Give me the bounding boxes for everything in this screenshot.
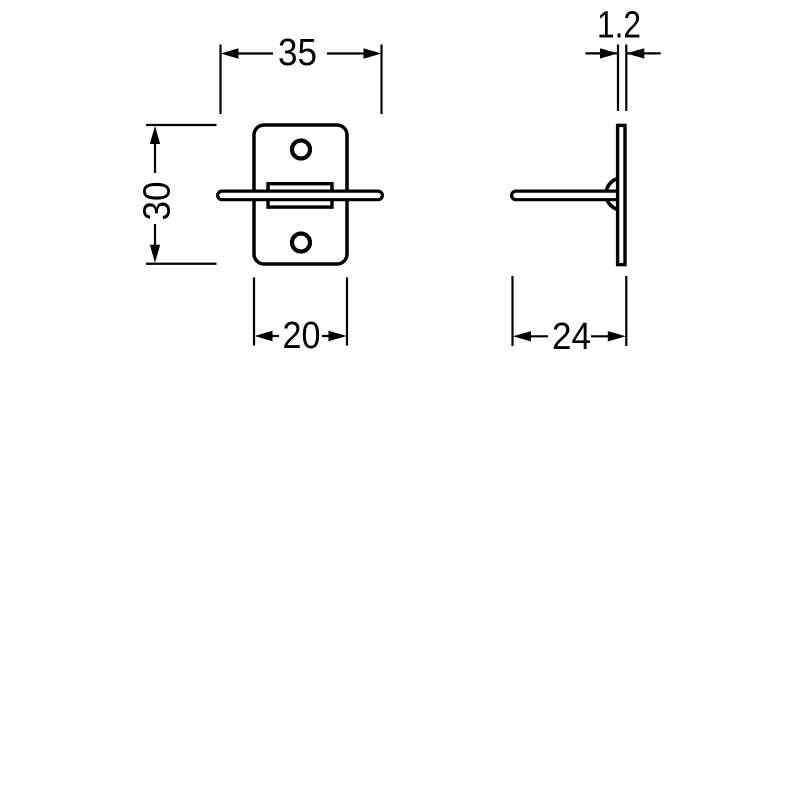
pin bar (side view) [512, 191, 620, 200]
dimension 20: left arrow [255, 331, 280, 341]
svg-text:20: 20 [283, 315, 321, 357]
svg-text:30: 30 [137, 182, 179, 221]
dimension 30: top arrow [150, 126, 160, 173]
dimension 35: extension line right [380, 45, 382, 115]
dimension 30: extension line bottom [146, 263, 217, 265]
svg-text:24: 24 [552, 316, 591, 358]
dimension 30: bottom arrow [150, 224, 160, 263]
pin bar (front view) [218, 191, 383, 200]
dimension 1.2: extension line left [617, 45, 619, 112]
dimension 20: label [283, 315, 321, 357]
dimension 1.2: right arrow (pointing left) [626, 48, 660, 58]
dimension 24: label [552, 316, 591, 358]
dimension 30: label (rotated) [137, 182, 179, 221]
dimension 24: extension line left [511, 276, 513, 346]
side view flange head arc [606, 178, 638, 210]
slot rectangle on plate [268, 184, 332, 207]
dimension 35: right arrow [327, 48, 382, 58]
side view plate edge [618, 125, 625, 264]
dimension 1.2: extension line right [625, 45, 627, 112]
dimension 35: left arrow [221, 48, 274, 58]
dimension 1.2: label [597, 5, 641, 47]
dimension 24: right arrow [591, 331, 626, 341]
svg-text:1.2: 1.2 [597, 5, 641, 47]
svg-text:35: 35 [278, 32, 317, 74]
dimension 35: label [278, 32, 317, 74]
dimension 24: left arrow [513, 331, 548, 341]
dimension 1.2: left arrow (pointing right) [585, 48, 618, 58]
bottom hole [292, 234, 310, 252]
dimension 30: extension line top [146, 124, 217, 126]
dimension 35: extension line left [219, 45, 221, 115]
top hole [292, 141, 310, 159]
dimension 24: extension line right [625, 276, 627, 346]
dimension 20: right arrow [322, 331, 347, 341]
dimension 20: extension line right [346, 278, 348, 346]
dimension 20: extension line left [253, 278, 255, 346]
front view plate outline [254, 125, 347, 264]
